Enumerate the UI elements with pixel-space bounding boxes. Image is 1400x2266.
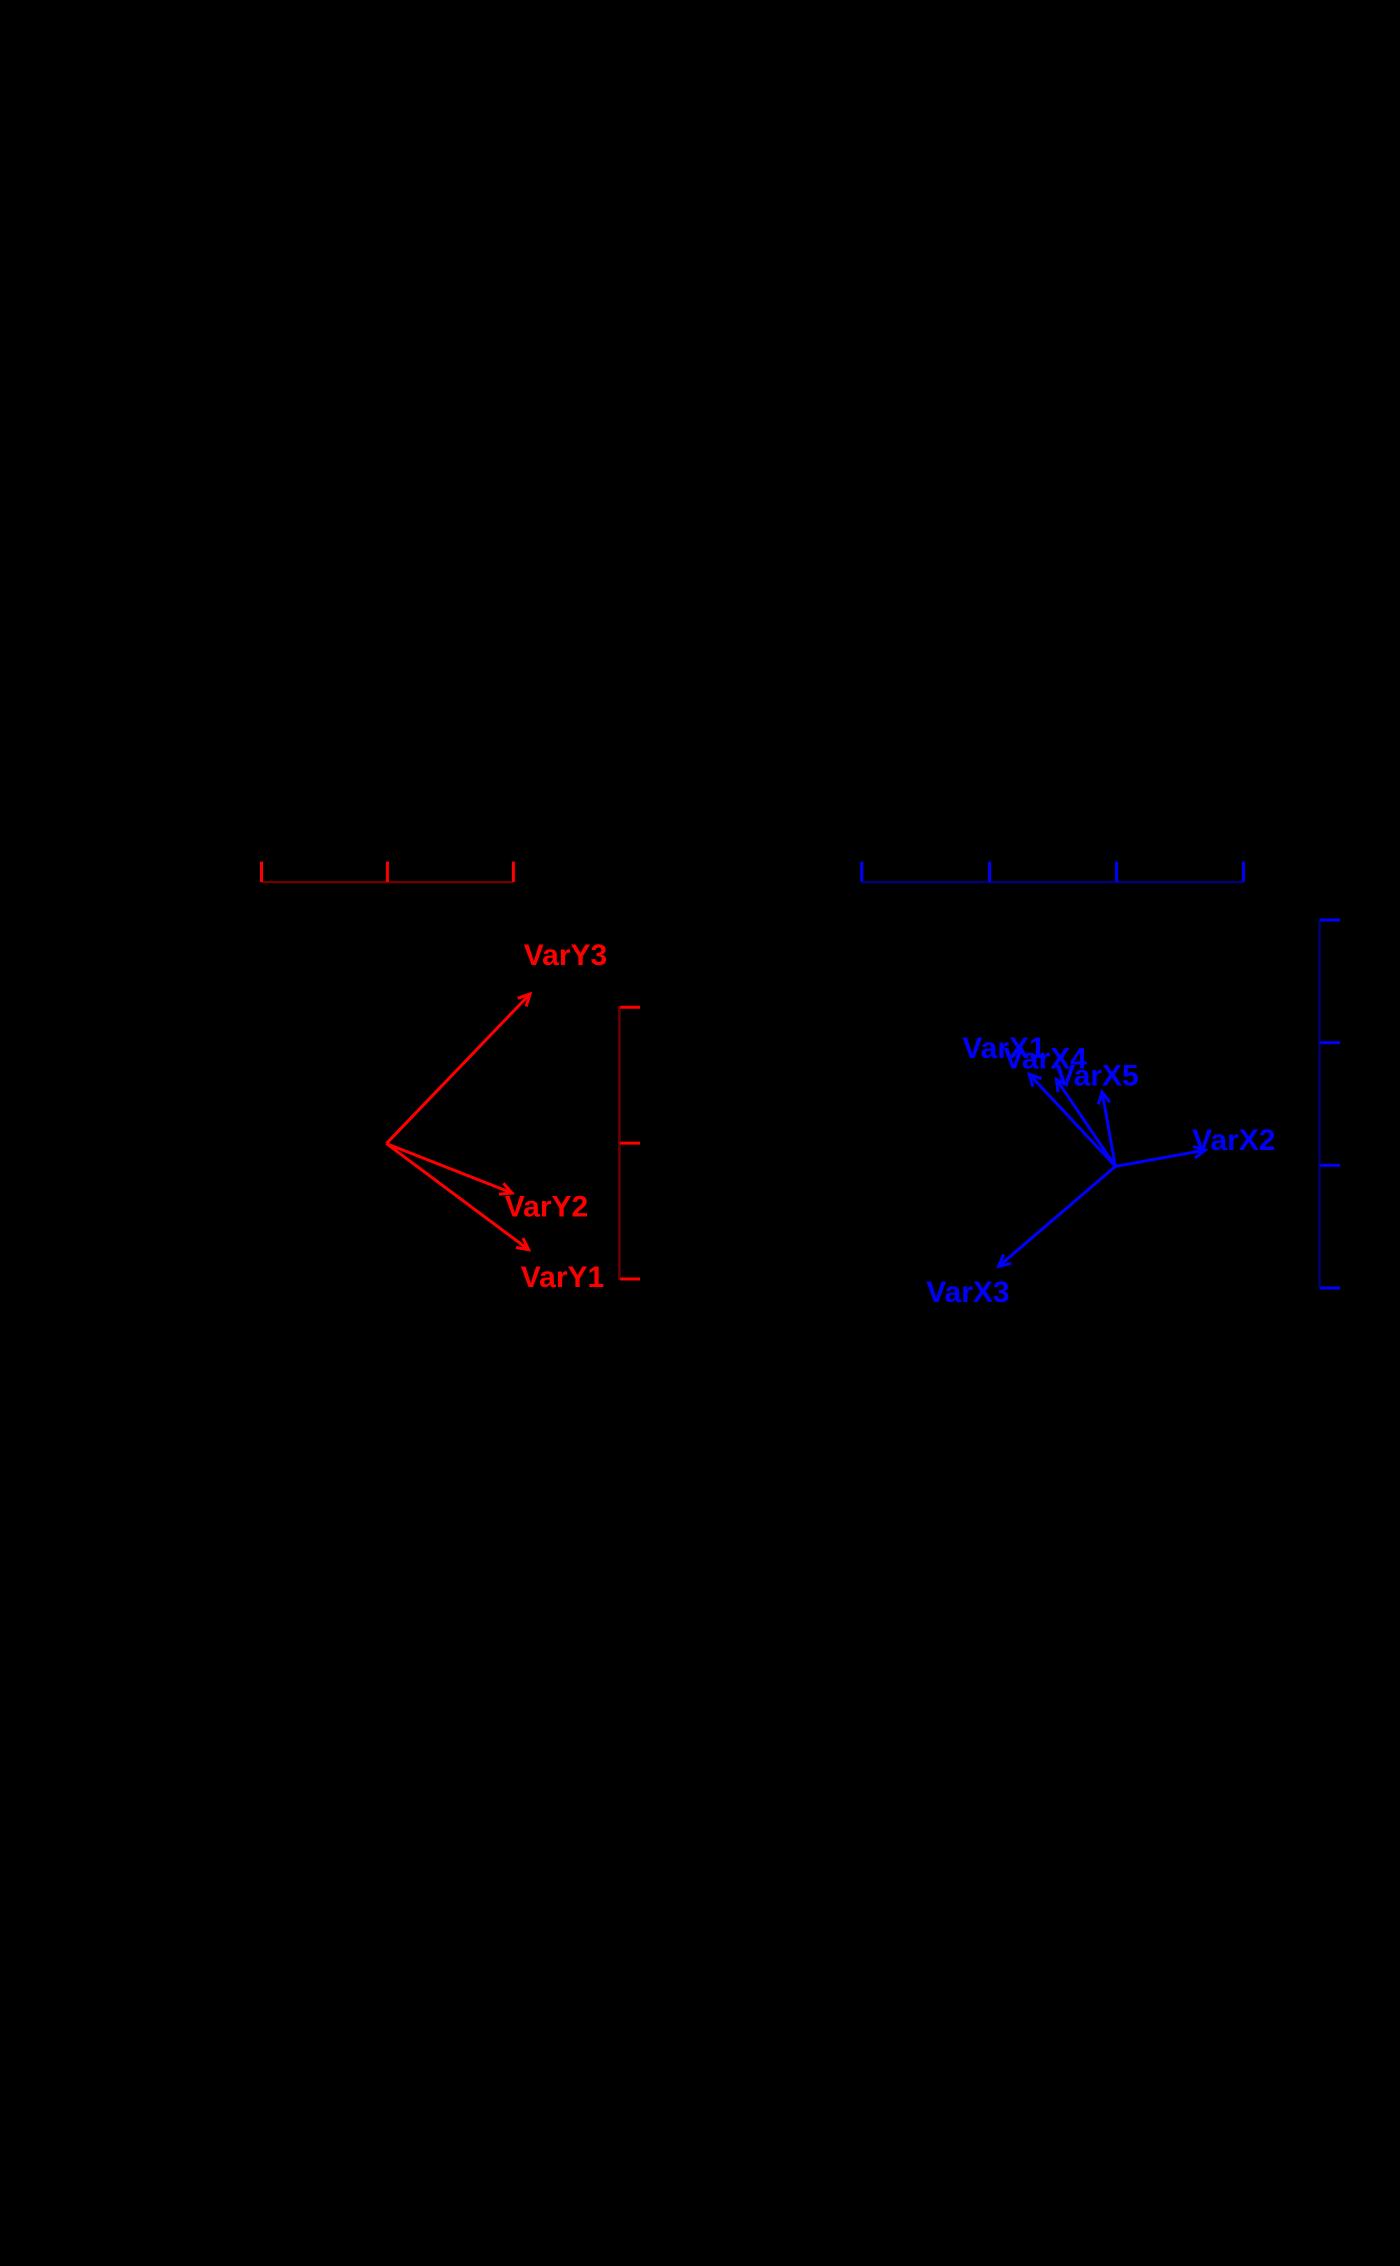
left panel top axis line (red) [262,881,514,883]
svg-text:VarX3: VarX3 [926,1276,1009,1309]
label VarY3 [524,939,607,972]
svg-text:VarY3: VarY3 [524,939,607,972]
arrow VarX4 [1056,1079,1115,1166]
svg-text:VarX5: VarX5 [1055,1060,1138,1093]
label VarX4 [1004,1043,1088,1076]
svg-text:VarX2: VarX2 [1192,1124,1275,1157]
label VarY1 [521,1261,604,1294]
svg-text:VarY2: VarY2 [505,1191,588,1224]
right panel right axis line (blue) [1318,919,1320,1289]
right panel right axis ticks (blue) [1320,920,1340,1288]
left panel right axis ticks (red) [620,1007,640,1279]
label VarX5 [1055,1060,1138,1093]
arrow VarY2 [386,1144,512,1195]
label VarX2 [1192,1124,1275,1157]
label VarX1 [962,1032,1045,1065]
arrow VarX3 [999,1166,1116,1266]
right panel top axis ticks (blue) [862,862,1244,882]
left panel top axis ticks (red) [262,862,514,882]
label VarX3 [926,1276,1009,1309]
left panel right axis line (red) [618,1006,620,1280]
label VarY2 [505,1191,588,1224]
arrow VarY3 [386,994,530,1144]
right panel top axis line (blue) [862,881,1244,883]
arrow VarX1 [1029,1074,1115,1166]
arrow VarY1 [386,1144,528,1250]
arrow VarX2 [1115,1146,1205,1166]
svg-text:VarY1: VarY1 [521,1261,604,1294]
arrow VarX5 [1098,1092,1115,1166]
